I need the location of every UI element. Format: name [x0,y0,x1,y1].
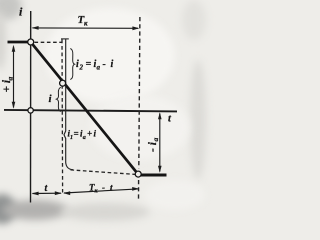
i axis (vertical) [30,11,32,203]
svg-text:a: a [97,64,101,72]
svg-text:+: + [87,129,92,139]
svg-text:i: i [94,129,97,139]
dashed vertical at time t [61,40,64,193]
svg-text:a: a [83,135,86,141]
bottom Tk - t dimension [64,189,138,193]
svg-text:- i: - i [147,141,159,152]
svg-text:i: i [49,93,53,105]
waveform diagonal line [33,45,136,172]
t axis (horizontal) [4,110,177,112]
svg-text:к: к [84,20,88,28]
svg-text:2: 2 [79,64,84,72]
svg-text:a: a [6,77,15,81]
svg-text:a: a [151,138,160,142]
dashed -ia level line [71,170,136,175]
svg-text:t: t [110,183,113,193]
svg-text:=: = [74,129,79,139]
svg-text:=: = [86,59,92,70]
open circle at +ia start [28,39,34,45]
open circle at Tk end [135,171,141,177]
dashed vertical at Tk (below circle) [138,180,140,201]
dashed level line from +ia circle [35,41,62,43]
Tk dimension line with arrowheads [33,27,139,29]
solid vertical strip line with bottom hook [64,39,73,169]
svg-text:-: - [102,183,105,193]
paper background shading [0,0,22,20]
top cap of section strip [61,38,69,40]
open circle on diagonal at time t [60,80,66,86]
svg-text:i: i [111,59,114,70]
svg-text:t: t [45,183,49,194]
brace for i2 [70,49,74,80]
svg-text:i: i [19,5,23,19]
dashed vertical at Tk (upper part) [139,17,140,169]
+ia dimension arrow (double headed) [13,47,15,108]
bottom t dimension (axis to time t) [33,192,62,194]
-ia level thick line [141,174,167,177]
svg-text:t: t [168,114,172,125]
-ia dimension arrow (double headed) [159,114,161,172]
brace for i [56,87,60,111]
svg-text:-: - [103,59,106,70]
+ia level thick line [8,41,29,44]
open circle at origin [28,108,33,113]
